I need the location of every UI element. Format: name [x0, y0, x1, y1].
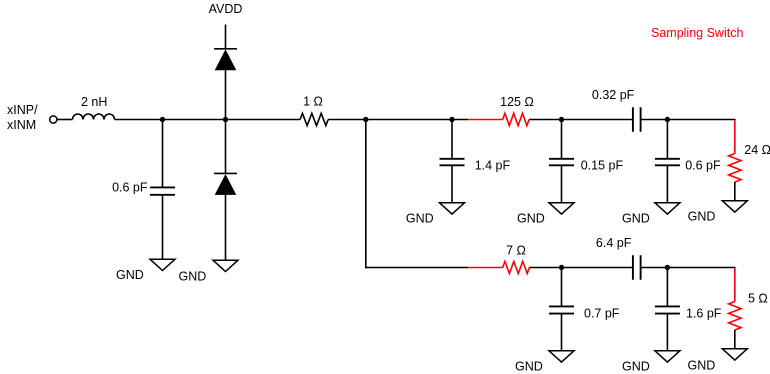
- svg-text:GND: GND: [688, 359, 716, 373]
- svg-text:GND: GND: [688, 210, 716, 224]
- svg-text:7 Ω: 7 Ω: [506, 244, 526, 258]
- svg-text:GND: GND: [622, 211, 650, 225]
- svg-text:GND: GND: [622, 360, 650, 374]
- svg-text:GND: GND: [116, 268, 144, 282]
- svg-text:0.6 pF: 0.6 pF: [685, 158, 721, 172]
- svg-text:125 Ω: 125 Ω: [500, 95, 534, 109]
- svg-text:AVDD: AVDD: [209, 2, 243, 16]
- svg-text:5 Ω: 5 Ω: [748, 291, 768, 305]
- svg-text:Sampling Switch: Sampling Switch: [651, 26, 743, 40]
- svg-text:GND: GND: [406, 211, 434, 225]
- svg-text:0.6 pF: 0.6 pF: [112, 181, 148, 195]
- svg-text:xINP/: xINP/: [7, 103, 38, 117]
- svg-text:xINM: xINM: [7, 118, 36, 132]
- svg-text:GND: GND: [515, 360, 543, 374]
- svg-text:0.32 pF: 0.32 pF: [592, 88, 635, 102]
- svg-text:1.4 pF: 1.4 pF: [475, 158, 511, 172]
- svg-text:6.4 pF: 6.4 pF: [596, 236, 632, 250]
- svg-text:2 nH: 2 nH: [81, 95, 107, 109]
- svg-text:1 Ω: 1 Ω: [303, 95, 323, 109]
- svg-text:0.7 pF: 0.7 pF: [584, 306, 620, 320]
- svg-text:0.15 pF: 0.15 pF: [581, 158, 624, 172]
- svg-text:GND: GND: [517, 211, 545, 225]
- svg-text:24 Ω: 24 Ω: [744, 143, 770, 157]
- svg-text:GND: GND: [179, 270, 207, 284]
- svg-text:1.6 pF: 1.6 pF: [686, 306, 722, 320]
